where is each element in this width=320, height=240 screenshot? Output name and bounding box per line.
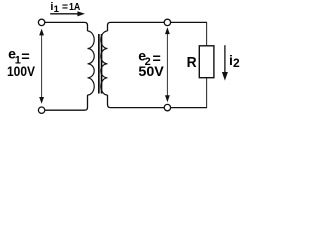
- svg-text:1: 1: [54, 4, 60, 15]
- voltage arrow e1 shaft: [41, 34, 43, 99]
- node bottom-right: [164, 104, 170, 110]
- svg-text:50V: 50V: [138, 63, 164, 79]
- terminal top-left: [38, 19, 44, 25]
- svg-text:=: =: [62, 1, 68, 13]
- svg-text:2: 2: [233, 56, 240, 70]
- voltage arrow e2 shaft: [166, 33, 168, 97]
- node top-right: [164, 19, 170, 25]
- transformer primary winding L1: [88, 31, 95, 95]
- transformer core: [98, 34, 100, 94]
- svg-text:R: R: [187, 55, 197, 71]
- svg-text:1A: 1A: [69, 1, 81, 13]
- wire secondary bottom: [108, 95, 208, 108]
- wire primary top: [45, 22, 88, 31]
- wire primary bottom: [45, 95, 88, 110]
- current arrow i1: [50, 13, 78, 15]
- svg-text:100V: 100V: [7, 63, 36, 79]
- voltage arrow e2 head up: [165, 27, 170, 34]
- voltage arrow e1 head down: [39, 97, 44, 104]
- wire secondary top to resistor: [108, 22, 208, 31]
- transformer secondary winding L2: [101, 31, 108, 95]
- current arrow i2: [224, 45, 226, 72]
- voltage arrow e1 head up: [39, 29, 44, 36]
- voltage arrow e2 head down: [165, 95, 170, 102]
- terminal bottom-left: [38, 107, 44, 113]
- resistor R body: [199, 46, 214, 78]
- svg-text:=: =: [21, 49, 30, 64]
